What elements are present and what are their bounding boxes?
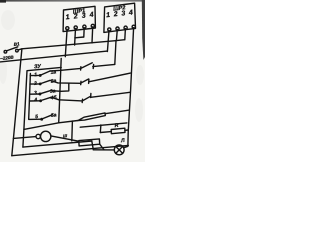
svg-text:2: 2 [72,13,78,21]
svg-text:4: 4 [128,9,134,17]
svg-text:3а: 3а [50,88,56,95]
svg-text:2: 2 [112,11,118,19]
svg-text:2а: 2а [50,78,57,85]
svg-text:5а: 5а [51,112,57,119]
svg-text:1а: 1а [50,69,56,76]
svg-text:В1: В1 [13,41,20,47]
svg-text:ЗУ: ЗУ [34,64,42,71]
svg-text:4: 4 [88,12,94,20]
